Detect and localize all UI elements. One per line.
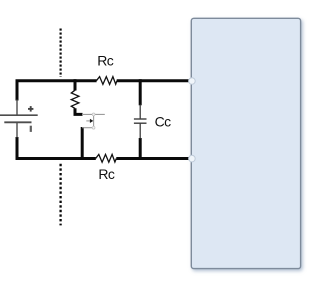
svg-text:Rc: Rc (98, 166, 115, 182)
wire: top rail left segment with left drop (17, 81, 97, 101)
battery V1 (0, 100, 38, 138)
block U1 (amplifier block, light blue) (191, 18, 300, 268)
transistor bottom junction dot (92, 126, 95, 129)
resistor R1 (vertical, base bias) (71, 90, 79, 108)
wire: transistor source down to bottom rail (81, 127, 84, 159)
transistor top junction dot (92, 113, 95, 116)
transistor channel bar (93, 114, 95, 127)
dashed boundary line (bottom) (59, 164, 61, 226)
node: top connection to block (189, 78, 196, 85)
wire: top rail right segment to block (117, 79, 189, 82)
svg-text:Cc: Cc (155, 113, 172, 129)
capacitor Cc (134, 105, 147, 139)
wire: capacitor branch to bottom rail (139, 138, 142, 160)
battery minus mark (30, 126, 32, 132)
battery plus sign (28, 106, 33, 112)
transistor gate arrow shaft (86, 120, 90, 122)
battery positive plate (0, 114, 38, 116)
resistor Rc (top) (96, 77, 117, 85)
wire: bottom rail right segment to block (116, 157, 188, 160)
wire: bottom rail left segment with left riser (17, 137, 96, 159)
dashed boundary line (top) (59, 29, 61, 78)
wire: vertical resistor bottom to transistor gate (75, 108, 83, 114)
transistor drain lead (82, 113, 105, 115)
capacitor top plate (134, 118, 147, 120)
battery bottom lead (16, 122, 18, 137)
transistor gate arrowhead (90, 119, 93, 123)
battery negative plate (4, 121, 31, 123)
node: bottom connection to block (189, 155, 196, 162)
resistor Rc (bottom) (96, 154, 117, 162)
transistor Q1 (gray symbol) (82, 114, 105, 127)
battery top lead (16, 100, 18, 116)
capacitor bottom plate (134, 122, 147, 124)
transistor source lead (82, 127, 94, 129)
wire: branch from top rail to vertical resistor (74, 79, 77, 90)
capacitor top lead (139, 105, 141, 120)
wire: capacitor branch from top rail (139, 79, 142, 105)
capacitor bottom lead (139, 123, 141, 138)
svg-text:Rc: Rc (97, 52, 114, 68)
